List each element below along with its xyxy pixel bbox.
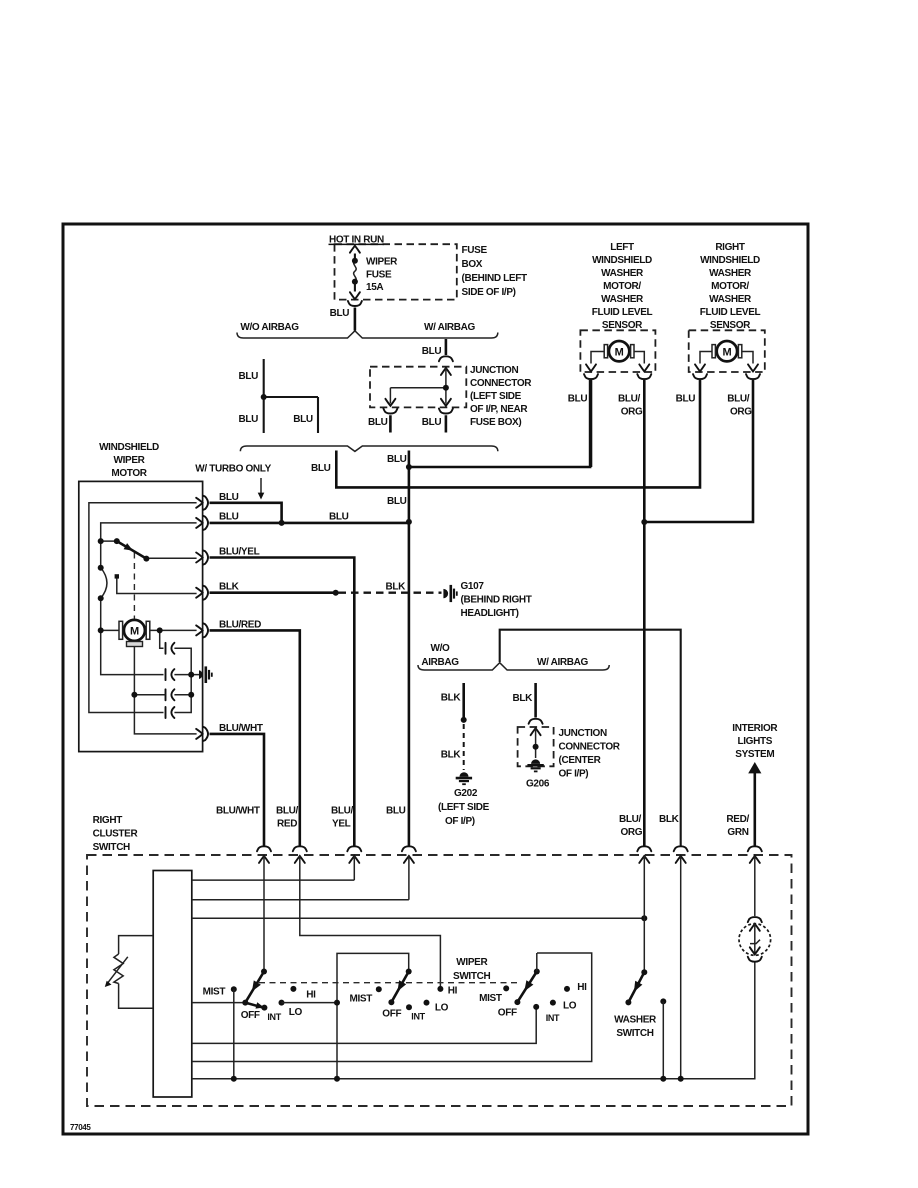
svg-text:SWITCH: SWITCH bbox=[93, 842, 130, 853]
svg-text:77045: 77045 bbox=[70, 1123, 91, 1132]
svg-text:BLU: BLU bbox=[219, 512, 239, 523]
svg-text:OFF: OFF bbox=[498, 1008, 517, 1019]
svg-text:WIPER: WIPER bbox=[456, 957, 488, 968]
svg-text:WASHER: WASHER bbox=[601, 294, 644, 305]
svg-text:OF I/P, NEAR: OF I/P, NEAR bbox=[470, 404, 528, 415]
svg-text:LO: LO bbox=[289, 1007, 303, 1018]
svg-text:BLU: BLU bbox=[330, 308, 350, 319]
svg-text:WINDSHIELD: WINDSHIELD bbox=[592, 255, 652, 266]
svg-text:MIST: MIST bbox=[350, 994, 373, 1005]
svg-text:BLK: BLK bbox=[441, 693, 462, 704]
svg-text:W/O AIRBAG: W/O AIRBAG bbox=[240, 322, 299, 333]
svg-text:(LEFT SIDE: (LEFT SIDE bbox=[438, 802, 490, 813]
svg-text:FLUID LEVEL: FLUID LEVEL bbox=[592, 307, 653, 318]
svg-text:SYSTEM: SYSTEM bbox=[735, 749, 774, 760]
svg-text:ORG: ORG bbox=[730, 407, 752, 418]
svg-text:W/O: W/O bbox=[431, 643, 451, 654]
svg-text:CONNECTOR: CONNECTOR bbox=[559, 742, 621, 753]
svg-text:HI: HI bbox=[448, 986, 458, 997]
svg-text:WASHER: WASHER bbox=[709, 268, 752, 279]
svg-text:JUNCTION: JUNCTION bbox=[559, 728, 607, 739]
svg-text:BLU: BLU bbox=[568, 394, 588, 405]
svg-text:BLU/: BLU/ bbox=[618, 394, 641, 405]
svg-text:LO: LO bbox=[563, 1001, 577, 1012]
svg-text:(BEHIND LEFT: (BEHIND LEFT bbox=[462, 273, 527, 284]
svg-text:MOTOR/: MOTOR/ bbox=[711, 281, 749, 292]
svg-text:BLU/: BLU/ bbox=[276, 806, 299, 817]
svg-text:W/ AIRBAG: W/ AIRBAG bbox=[424, 322, 475, 333]
svg-text:INT: INT bbox=[411, 1012, 425, 1022]
svg-text:HI: HI bbox=[306, 990, 316, 1001]
svg-text:OF I/P): OF I/P) bbox=[445, 816, 475, 827]
svg-text:YEL: YEL bbox=[332, 819, 351, 830]
svg-text:WASHER: WASHER bbox=[709, 294, 752, 305]
svg-text:SIDE OF I/P): SIDE OF I/P) bbox=[462, 287, 516, 298]
svg-text:BLK: BLK bbox=[219, 582, 240, 593]
svg-text:BLU/: BLU/ bbox=[619, 814, 642, 825]
svg-text:AIRBAG: AIRBAG bbox=[421, 657, 459, 668]
svg-text:GRN: GRN bbox=[727, 827, 748, 838]
svg-text:OFF: OFF bbox=[382, 1009, 401, 1020]
svg-text:LIGHTS: LIGHTS bbox=[738, 736, 773, 747]
svg-text:SENSOR: SENSOR bbox=[710, 320, 751, 331]
svg-text:RIGHT: RIGHT bbox=[93, 815, 123, 826]
svg-text:RED: RED bbox=[277, 819, 297, 830]
svg-text:W/ TURBO ONLY: W/ TURBO ONLY bbox=[195, 464, 271, 475]
svg-text:SWITCH: SWITCH bbox=[453, 971, 490, 982]
svg-text:FUSE BOX): FUSE BOX) bbox=[470, 417, 521, 428]
svg-text:FUSE: FUSE bbox=[462, 245, 488, 256]
svg-text:ORG: ORG bbox=[621, 827, 643, 838]
svg-text:BLU: BLU bbox=[676, 394, 696, 405]
svg-text:W/ AIRBAG: W/ AIRBAG bbox=[537, 657, 588, 668]
svg-text:OFF: OFF bbox=[241, 1010, 260, 1021]
svg-text:BLU/: BLU/ bbox=[331, 806, 354, 817]
svg-text:BLU/YEL: BLU/YEL bbox=[219, 547, 260, 558]
svg-text:CONNECTOR: CONNECTOR bbox=[470, 378, 532, 389]
svg-text:BLU/WHT: BLU/WHT bbox=[219, 723, 263, 734]
svg-text:BLU: BLU bbox=[311, 463, 331, 474]
svg-text:WIPER: WIPER bbox=[113, 455, 145, 466]
svg-text:WASHER: WASHER bbox=[601, 268, 644, 279]
svg-text:BLK: BLK bbox=[386, 582, 407, 593]
svg-text:INTERIOR: INTERIOR bbox=[732, 723, 778, 734]
svg-text:WINDSHIELD: WINDSHIELD bbox=[99, 442, 159, 453]
svg-text:M: M bbox=[130, 626, 139, 638]
svg-text:BLU: BLU bbox=[219, 492, 239, 503]
svg-text:BLU: BLU bbox=[422, 417, 442, 428]
svg-text:15A: 15A bbox=[366, 282, 383, 293]
svg-text:BLU: BLU bbox=[293, 414, 313, 425]
svg-text:RED/: RED/ bbox=[726, 814, 749, 825]
svg-text:LEFT: LEFT bbox=[610, 242, 634, 253]
svg-text:BLK: BLK bbox=[441, 750, 462, 761]
svg-text:BLU: BLU bbox=[386, 806, 406, 817]
svg-text:BLU: BLU bbox=[387, 496, 407, 507]
svg-text:BLU/WHT: BLU/WHT bbox=[216, 806, 260, 817]
svg-text:OF I/P): OF I/P) bbox=[559, 769, 589, 780]
svg-text:BOX: BOX bbox=[462, 259, 483, 270]
svg-text:BLU: BLU bbox=[422, 346, 442, 357]
svg-text:BLU: BLU bbox=[368, 417, 388, 428]
svg-text:ORG: ORG bbox=[621, 407, 643, 418]
svg-text:HI: HI bbox=[577, 982, 587, 993]
svg-text:BLU/: BLU/ bbox=[727, 394, 750, 405]
svg-text:WASHER: WASHER bbox=[614, 1015, 657, 1026]
svg-text:RIGHT: RIGHT bbox=[715, 242, 745, 253]
svg-text:G202: G202 bbox=[454, 788, 478, 799]
svg-text:SENSOR: SENSOR bbox=[602, 320, 643, 331]
svg-text:WINDSHIELD: WINDSHIELD bbox=[700, 255, 760, 266]
svg-text:G107: G107 bbox=[461, 581, 485, 592]
svg-text:M: M bbox=[615, 346, 624, 358]
svg-text:FUSE: FUSE bbox=[366, 269, 392, 280]
svg-text:M: M bbox=[722, 346, 731, 358]
svg-text:LO: LO bbox=[435, 1003, 449, 1014]
svg-text:INT: INT bbox=[546, 1013, 560, 1023]
svg-text:MIST: MIST bbox=[203, 987, 226, 998]
svg-text:BLU: BLU bbox=[329, 512, 349, 523]
svg-text:JUNCTION: JUNCTION bbox=[470, 365, 518, 376]
svg-text:HEADLIGHT): HEADLIGHT) bbox=[461, 608, 519, 619]
svg-text:WIPER: WIPER bbox=[366, 256, 398, 267]
svg-text:INT: INT bbox=[267, 1012, 281, 1022]
svg-text:BLU: BLU bbox=[387, 454, 407, 465]
svg-text:MIST: MIST bbox=[479, 993, 502, 1004]
svg-text:MOTOR/: MOTOR/ bbox=[603, 281, 641, 292]
svg-text:BLK: BLK bbox=[659, 814, 680, 825]
svg-text:CLUSTER: CLUSTER bbox=[93, 829, 139, 840]
svg-text:BLU/RED: BLU/RED bbox=[219, 620, 261, 631]
svg-text:(BEHIND RIGHT: (BEHIND RIGHT bbox=[461, 595, 532, 606]
svg-text:FLUID LEVEL: FLUID LEVEL bbox=[700, 307, 761, 318]
svg-text:G206: G206 bbox=[526, 779, 550, 790]
svg-text:BLU: BLU bbox=[239, 414, 259, 425]
svg-text:BLU: BLU bbox=[239, 371, 259, 382]
svg-text:BLK: BLK bbox=[513, 693, 534, 704]
svg-text:MOTOR: MOTOR bbox=[111, 468, 147, 479]
svg-text:SWITCH: SWITCH bbox=[616, 1028, 653, 1039]
svg-text:(LEFT SIDE: (LEFT SIDE bbox=[470, 391, 522, 402]
svg-text:(CENTER: (CENTER bbox=[559, 755, 602, 766]
